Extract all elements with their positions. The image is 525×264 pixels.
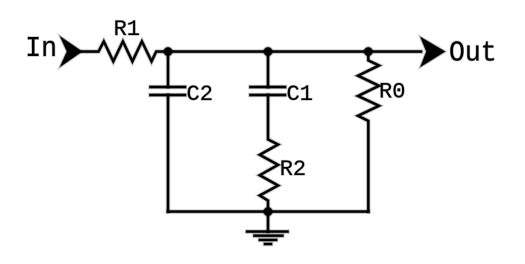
svg-text:Out: Out [449,38,497,70]
svg-text:In: In [25,33,57,65]
svg-text:R0: R0 [379,80,405,105]
svg-text:R1: R1 [114,17,140,42]
svg-text:C1: C1 [287,82,313,107]
svg-text:R2: R2 [280,157,306,182]
svg-text:C2: C2 [187,82,213,107]
